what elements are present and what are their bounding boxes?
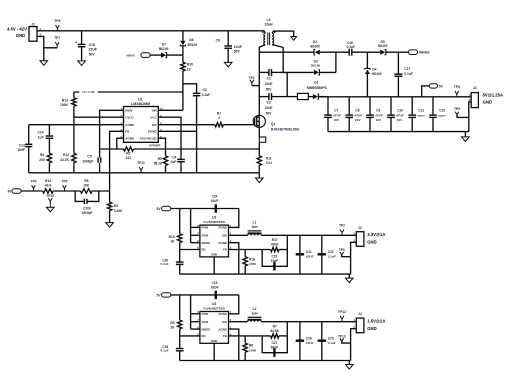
capacitor C19: [211, 281, 219, 299]
svg-text:0.01: 0.01: [266, 161, 272, 165]
wire VIN rail: [37, 30, 264, 32]
svg-text:R13: R13: [62, 98, 68, 102]
wire U2 ground rail: [180, 273, 351, 275]
svg-text:100K: 100K: [249, 262, 257, 266]
svg-text:J2: J2: [473, 86, 477, 90]
capacitor C100: [75, 191, 99, 215]
svg-text:50V: 50V: [266, 112, 273, 116]
svg-text:VCC: VCC: [150, 116, 157, 120]
svg-text:VBIAS: VBIAS: [126, 53, 135, 57]
resistor R2: [124, 147, 134, 160]
svg-text:43.2K: 43.2K: [60, 158, 69, 162]
svg-text:D2: D2: [313, 40, 317, 44]
inductor L1: [229, 221, 262, 236]
svg-text:C100: C100: [83, 207, 91, 211]
svg-text:PVIN: PVIN: [202, 312, 209, 316]
svg-text:SW: SW: [222, 234, 227, 238]
svg-text:D4: D4: [372, 68, 376, 72]
ground U3: [346, 361, 354, 370]
svg-text:TP13: TP13: [338, 334, 346, 338]
svg-text:C23: C23: [271, 255, 277, 259]
resistor R8: [80, 179, 109, 193]
svg-text:Ub=4.7W: Ub=4.7W: [82, 90, 95, 94]
svg-text:B0100: B0100: [311, 63, 320, 67]
svg-text:10V: 10V: [397, 118, 403, 122]
svg-text:GND: GND: [16, 33, 25, 38]
resistor R5: [170, 295, 181, 336]
wire sense line left: [100, 148, 124, 150]
wire J1 pin2 to ground: [37, 36, 57, 60]
wire AGND rail: [29, 172, 260, 174]
svg-text:22uH: 22uH: [264, 22, 273, 26]
svg-text:88.1K: 88.1K: [154, 162, 163, 166]
svg-text:15pF: 15pF: [271, 259, 278, 263]
capacitor C17: [394, 52, 412, 97]
svg-text:C19: C19: [212, 281, 218, 285]
ground J1: [40, 61, 48, 66]
resistor R9: [154, 138, 168, 173]
test point TP8: [454, 85, 460, 97]
svg-text:GND: GND: [483, 100, 492, 105]
svg-text:B0100: B0100: [372, 72, 382, 76]
svg-text:TP10: TP10: [46, 194, 54, 198]
svg-text:1uH: 1uH: [251, 311, 258, 315]
svg-text:R11: R11: [266, 156, 272, 160]
svg-text:open: open: [438, 113, 446, 117]
capacitor C25: [318, 322, 336, 361]
svg-text:D1: D1: [314, 81, 318, 85]
svg-text:10UF: 10UF: [306, 255, 314, 259]
svg-text:1uF: 1uF: [171, 160, 177, 164]
svg-text:L1: L1: [253, 221, 257, 225]
svg-text:J4: J4: [358, 312, 362, 316]
svg-text:10UF: 10UF: [211, 285, 219, 289]
svg-text:Q1: Q1: [271, 122, 276, 126]
connector J2: [469, 86, 503, 107]
wire VIN pin10: [158, 109, 183, 111]
wire sepic cap tie: [286, 72, 288, 96]
connector J3: [353, 226, 385, 247]
ground transformer secondary: [291, 37, 297, 41]
wire J4 pin2: [351, 329, 357, 361]
svg-text:0.1uF: 0.1uF: [404, 72, 412, 76]
svg-text:C5: C5: [87, 155, 91, 159]
svg-text:open: open: [417, 113, 425, 117]
wire ISEN pin1: [100, 110, 124, 149]
svg-text:C24: C24: [212, 195, 218, 199]
test point TP2: [339, 224, 345, 236]
svg-text:10UF: 10UF: [265, 106, 273, 110]
svg-text:C12: C12: [439, 109, 445, 113]
ground C15: [78, 61, 86, 66]
resistor R13: [60, 92, 76, 117]
capacitor C9: [366, 97, 383, 132]
test point TP6: [54, 19, 60, 31]
svg-text:EN: EN: [202, 248, 206, 252]
svg-text:C2: C2: [266, 101, 270, 105]
svg-text:AGND: AGND: [218, 241, 227, 245]
svg-text:0.1uF: 0.1uF: [202, 93, 210, 97]
capacitor C13: [18, 125, 32, 173]
resistor R11: [257, 156, 272, 173]
svg-text:49.9: 49.9: [45, 184, 52, 188]
net label VBIAS left: [126, 53, 161, 58]
svg-text:C6: C6: [216, 39, 220, 43]
resistor R7: [270, 324, 287, 338]
svg-text:C26: C26: [306, 336, 312, 340]
svg-text:1.5V@2A: 1.5V@2A: [367, 319, 385, 324]
svg-text:U2: U2: [212, 216, 216, 220]
svg-text:R5: R5: [170, 321, 174, 325]
test point TP12: [338, 310, 346, 322]
svg-text:5V@1.25A: 5V@1.25A: [483, 92, 503, 97]
capacitor C22: [318, 235, 336, 274]
svg-text:10: 10: [187, 67, 191, 71]
svg-text:TP1: TP1: [249, 76, 255, 80]
wire U3 GND pin: [213, 343, 215, 360]
wire source to R11: [258, 142, 260, 156]
svg-text:FB: FB: [223, 248, 227, 252]
svg-text:10V: 10V: [334, 118, 340, 122]
resistor R15: [169, 209, 182, 250]
svg-text:R6: R6: [249, 344, 253, 348]
svg-text:50V: 50V: [234, 50, 241, 54]
wire U3 AGND: [229, 329, 239, 360]
svg-text:J3: J3: [358, 226, 362, 230]
svg-text:100K: 100K: [249, 348, 257, 352]
wire AGND pin5: [117, 138, 124, 149]
svg-text:C11: C11: [418, 109, 424, 113]
transformer L4: [259, 18, 293, 47]
svg-text:R8: R8: [84, 179, 88, 183]
inductor L2: [229, 307, 262, 322]
wire 5V rail: [318, 96, 471, 98]
resistor R17: [271, 238, 288, 252]
wire U3 PVIN feed: [229, 295, 239, 314]
svg-text:D7: D7: [162, 42, 166, 46]
svg-text:TP3: TP3: [339, 248, 345, 252]
wire source: [258, 127, 260, 137]
svg-text:SW: SW: [222, 320, 227, 324]
wire U3 ground rail: [180, 360, 351, 362]
diode D4: [365, 52, 382, 97]
svg-text:GND: GND: [211, 339, 217, 343]
svg-text:AVIN: AVIN: [202, 320, 209, 324]
net label 5V U3: [157, 293, 239, 298]
svg-text:R17: R17: [272, 238, 278, 242]
svg-text:1uH: 1uH: [251, 225, 258, 229]
svg-text:PGND: PGND: [219, 226, 227, 230]
svg-text:R2: R2: [126, 151, 130, 155]
svg-text:J1: J1: [31, 22, 35, 26]
svg-text:FA/SYNC/SD: FA/SYNC/SD: [140, 136, 157, 140]
svg-text:GND: GND: [367, 240, 376, 245]
wire UVLO pin2: [74, 117, 124, 153]
wire C2 to D1: [287, 96, 297, 98]
svg-text:5V: 5V: [439, 84, 444, 88]
test point TP1: [249, 76, 260, 86]
wire VIN to R13: [74, 90, 183, 95]
svg-text:C7: C7: [334, 109, 338, 113]
capacitor C15: [75, 31, 97, 61]
svg-text:C4: C4: [172, 155, 176, 159]
svg-text:4.5V - 42V: 4.5V - 42V: [7, 27, 27, 32]
svg-text:3.40K: 3.40K: [114, 209, 123, 213]
svg-text:0.1uF: 0.1uF: [328, 255, 336, 259]
svg-text:R9: R9: [158, 157, 162, 161]
svg-text:B0100: B0100: [188, 43, 198, 47]
test point TP3: [339, 248, 351, 257]
svg-text:D8: D8: [189, 38, 193, 42]
test point TP9: [454, 107, 469, 117]
svg-text:68pF: 68pF: [271, 346, 278, 350]
svg-text:AVIN: AVIN: [202, 234, 209, 238]
svg-text:R7: R7: [273, 324, 277, 328]
svg-text:TP7: TP7: [54, 36, 60, 40]
net label VBIAS right: [409, 50, 431, 55]
wire secondary bottom: [282, 47, 284, 72]
svg-text:TP12: TP12: [338, 310, 346, 314]
resistor R6: [243, 336, 257, 361]
svg-text:10V: 10V: [376, 118, 382, 122]
capacitor C5: [82, 149, 100, 173]
diode D1 with series element: [297, 81, 328, 100]
svg-text:PGND: PGND: [148, 130, 158, 134]
svg-text:U3: U3: [212, 302, 216, 306]
test point TP4: [30, 179, 36, 191]
ground AGND rail: [256, 173, 264, 183]
wire U2 AGND: [229, 243, 239, 274]
svg-text:C27: C27: [271, 341, 277, 345]
svg-text:B0100: B0100: [310, 45, 320, 49]
svg-text:0.1uF: 0.1uF: [161, 262, 169, 266]
svg-text:47UF: 47UF: [375, 113, 383, 117]
net label IN: [8, 189, 43, 194]
svg-text:TP9: TP9: [454, 107, 460, 111]
net label 5V: [422, 84, 444, 97]
svg-text:R16: R16: [249, 257, 255, 261]
test point TP7: [54, 36, 60, 48]
wire U3 output rail: [261, 321, 356, 323]
svg-text:TP8: TP8: [454, 85, 460, 89]
wire FB pin4: [110, 131, 124, 191]
svg-text:GND: GND: [367, 326, 376, 331]
capacitor C16: [347, 41, 381, 56]
svg-text:R1: R1: [217, 111, 221, 115]
svg-text:C14: C14: [38, 131, 44, 135]
wire J3 pin2: [351, 242, 357, 274]
svg-text:10UF: 10UF: [234, 45, 242, 49]
svg-text:C22: C22: [328, 250, 334, 254]
svg-text:TP5: TP5: [61, 179, 67, 183]
svg-text:R10: R10: [187, 63, 193, 67]
svg-text:10V: 10V: [355, 118, 361, 122]
resistor R4: [39, 153, 51, 173]
capacitor C7: [324, 97, 341, 132]
connector J1: [7, 22, 41, 41]
capacitor C11: [408, 97, 425, 132]
diode D2: [310, 40, 349, 55]
wire output ground rail: [328, 131, 469, 133]
svg-text:1uF: 1uF: [38, 135, 44, 139]
wire C1 to D3: [283, 71, 313, 73]
svg-text:TP2: TP2: [339, 224, 345, 228]
svg-text:100K: 100K: [60, 103, 69, 107]
svg-text:C13: C13: [19, 144, 25, 148]
net label 5V U2: [157, 206, 239, 211]
svg-text:VBIAS: VBIAS: [419, 51, 430, 55]
svg-text:R4: R4: [40, 153, 44, 157]
svg-text:MODE: MODE: [202, 241, 211, 245]
svg-text:UVLO: UVLO: [125, 116, 134, 120]
svg-text:MBRB580PS: MBRB580PS: [307, 86, 328, 90]
resistor R12: [60, 153, 76, 173]
svg-text:LM3481MM: LM3481MM: [131, 102, 150, 106]
svg-text:0.1uF: 0.1uF: [347, 45, 355, 49]
wire J2 pin2: [469, 102, 471, 132]
svg-text:C1: C1: [266, 76, 270, 80]
svg-text:1800pF: 1800pF: [82, 211, 93, 215]
wire U3 left pins: [180, 295, 200, 336]
capacitor C2: [259, 93, 287, 116]
test point TP13: [338, 334, 351, 343]
capacitor C23: [262, 250, 287, 271]
svg-text:L2: L2: [253, 307, 257, 311]
diode D7: [159, 42, 183, 57]
wire U3 vout drop: [286, 322, 288, 336]
svg-text:50V: 50V: [266, 87, 273, 91]
svg-text:R15: R15: [169, 235, 175, 239]
resistor R3: [106, 191, 123, 227]
ground U2: [346, 274, 354, 283]
svg-text:L4: L4: [267, 18, 271, 22]
svg-text:PVIN: PVIN: [202, 226, 209, 230]
wire U3 FB line: [229, 335, 271, 337]
capacitor C14: [38, 125, 54, 154]
svg-text:R14: R14: [45, 179, 51, 183]
svg-text:47UF: 47UF: [333, 113, 341, 117]
svg-text:C17: C17: [404, 67, 410, 71]
capacitor C3: [183, 84, 210, 173]
resistor R1: [158, 111, 253, 126]
capacitor C24: [211, 195, 219, 213]
svg-text:ISEN: ISEN: [125, 109, 132, 113]
op-amp U1 LM3481MM: [120, 98, 163, 148]
svg-text:AGND: AGND: [218, 327, 227, 331]
capacitor C1: [259, 69, 283, 92]
svg-text:TP4: TP4: [30, 179, 36, 183]
capacitor C6: [216, 31, 242, 63]
capacitor C12: [429, 97, 446, 132]
capacitor C4: [158, 117, 185, 173]
svg-text:C9: C9: [376, 109, 380, 113]
svg-text:1K: 1K: [170, 326, 175, 330]
svg-text:3.3V@1A: 3.3V@1A: [367, 232, 385, 237]
svg-text:10UF: 10UF: [265, 82, 273, 86]
transistor Q1: [253, 115, 299, 131]
svg-text:C8: C8: [355, 109, 359, 113]
svg-text:47UF: 47UF: [354, 113, 362, 117]
svg-text:DNP: DNP: [18, 148, 26, 152]
ground output: [462, 132, 470, 142]
svg-text:FB: FB: [223, 334, 227, 338]
ground C6: [224, 62, 232, 67]
wire U2 output rail: [261, 234, 356, 236]
svg-text:84.5K: 84.5K: [270, 329, 279, 333]
diode D3: [311, 52, 336, 75]
svg-text:R12: R12: [63, 153, 69, 157]
svg-text:TLV62085TDSG: TLV62085TDSG: [203, 220, 226, 224]
connector J4: [353, 312, 385, 333]
capacitor C8: [345, 97, 362, 132]
capacitor C21: [296, 235, 314, 274]
op-amp U3 TLV62085: [197, 302, 232, 343]
svg-text:0: 0: [218, 116, 220, 120]
svg-text:R3: R3: [114, 204, 118, 208]
svg-text:0.1uF: 0.1uF: [161, 349, 169, 353]
svg-text:221: 221: [126, 156, 132, 160]
svg-text:PGND: PGND: [219, 312, 227, 316]
wire COMP: [29, 124, 124, 126]
diode D8: [180, 31, 197, 55]
svg-text:+: +: [75, 40, 77, 44]
svg-text:10UF: 10UF: [306, 341, 314, 345]
svg-text:1000pF: 1000pF: [82, 159, 93, 163]
diode D5: [378, 40, 408, 55]
svg-text:GND: GND: [211, 253, 217, 257]
svg-text:0.1uF: 0.1uF: [328, 341, 336, 345]
resistor R16: [243, 250, 257, 275]
capacitor C20: [161, 250, 184, 275]
svg-text:C21: C21: [306, 250, 312, 254]
svg-text:VIN: VIN: [152, 109, 157, 113]
test point TP5: [61, 179, 67, 191]
svg-text:C3: C3: [203, 88, 207, 92]
svg-text:47UF: 47UF: [396, 113, 404, 117]
svg-text:TP6: TP6: [54, 19, 60, 23]
op-amp U2 TLV62085: [197, 216, 232, 257]
svg-text:DITHER: DITHER: [149, 144, 161, 148]
svg-text:MODE: MODE: [202, 327, 211, 331]
capacitor C26: [296, 322, 314, 361]
svg-text:EN: EN: [202, 334, 206, 338]
wire U2 FB line: [229, 249, 271, 251]
wire PGND pin7: [158, 130, 196, 132]
svg-text:TLV62085TDSG: TLV62085TDSG: [203, 307, 226, 311]
svg-text:200: 200: [39, 158, 45, 162]
wire drain: [258, 47, 260, 116]
wire U2 left pins: [180, 209, 200, 250]
svg-text:U1: U1: [138, 98, 143, 102]
wire U2 vout drop: [286, 235, 288, 249]
svg-text:TP11: TP11: [137, 161, 145, 165]
svg-text:10K: 10K: [83, 184, 90, 188]
svg-text:C25: C25: [328, 336, 334, 340]
wire U2 GND pin: [213, 257, 215, 274]
wire U2 PVIN feed: [229, 209, 239, 228]
sense jumper box: [259, 137, 265, 142]
wire sense line right: [134, 148, 260, 150]
svg-text:B0100: B0100: [378, 44, 388, 48]
svg-text:COMP: COMP: [125, 123, 134, 127]
svg-text:C10: C10: [397, 109, 403, 113]
wire clamp node: [259, 51, 313, 53]
svg-text:1K: 1K: [170, 239, 175, 243]
test point TP10 grounded: [46, 194, 54, 212]
svg-text:RJK0367N06L50G: RJK0367N06L50G: [271, 127, 300, 131]
svg-text:C15: C15: [89, 43, 95, 47]
capacitor C10: [387, 97, 404, 132]
